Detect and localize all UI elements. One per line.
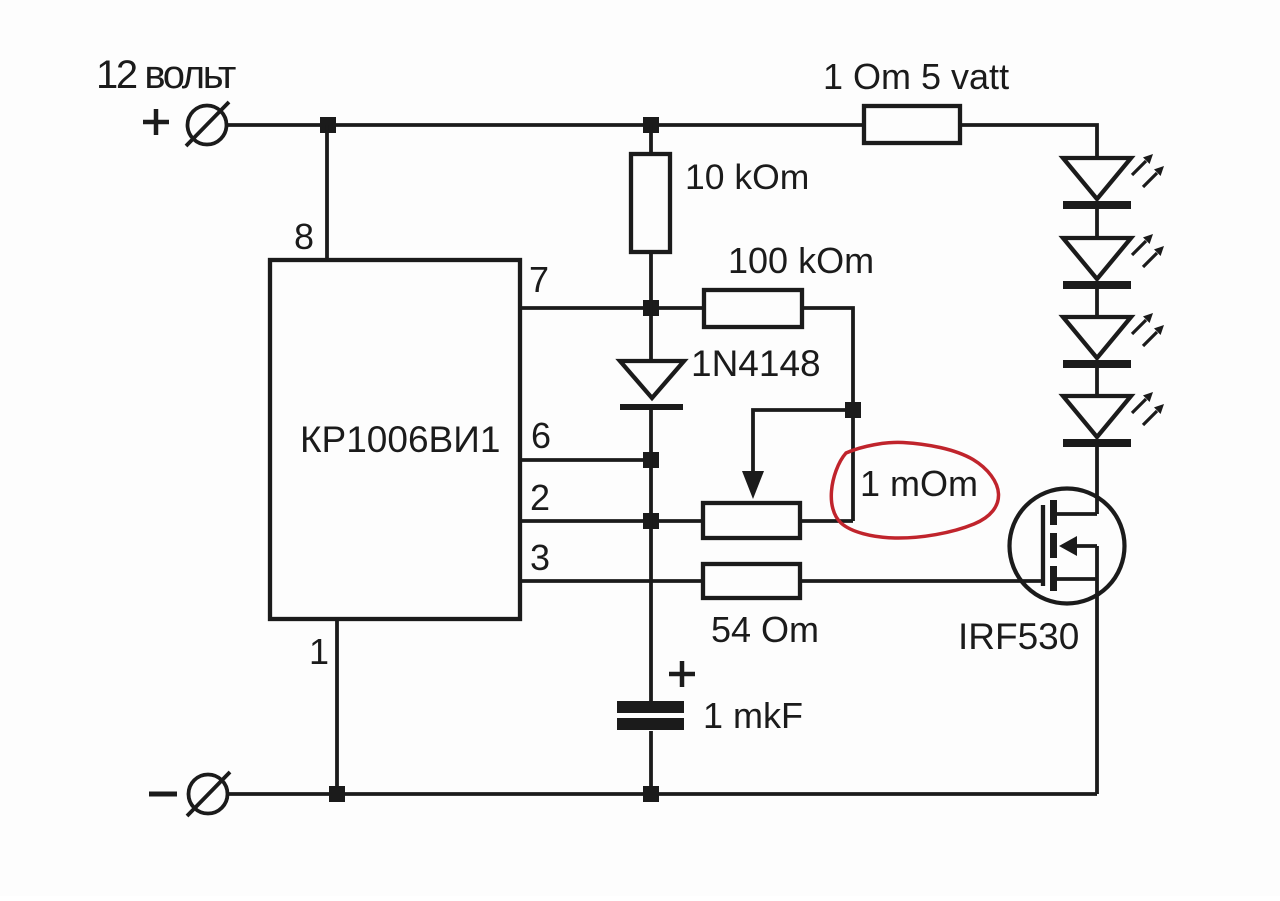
- wire pin 3 (to gate through 54 Om): [520, 579, 703, 583]
- svg-text:54 Om: 54 Om: [711, 609, 819, 650]
- junction top rail / pin 8: [320, 117, 336, 133]
- wire pot right terminal: [800, 519, 853, 523]
- svg-text:100 kOm: 100 kOm: [728, 240, 874, 281]
- wire capacitor to bottom rail: [649, 731, 653, 794]
- resistor 100 kOm: [704, 290, 802, 327]
- resistor 10 kOm: [631, 154, 670, 252]
- wire pin 2: [520, 519, 703, 523]
- wire 54 Om to MOSFET gate: [800, 579, 1043, 583]
- minus sign: [149, 792, 177, 797]
- potentiometer 1 mOm body: [703, 503, 800, 538]
- svg-text:IRF530: IRF530: [958, 616, 1079, 657]
- wire top rail right (R 1 Om to LED chain): [960, 125, 1097, 158]
- wire pot wiper arm: [753, 410, 845, 472]
- wire MOSFET source to bottom rail: [1095, 579, 1099, 794]
- wire pin 1: [335, 619, 339, 794]
- wire pin 8: [325, 125, 329, 260]
- wire LED D5 to MOSFET drain: [1095, 447, 1099, 514]
- junction pin 7 / 10 kOm / diode: [643, 300, 659, 316]
- svg-text:1N4148: 1N4148: [691, 343, 821, 384]
- LED D2 arrows: [1132, 154, 1164, 187]
- transistor Q1 IRF530 MOSFET: [1010, 489, 1125, 604]
- plus sign: [143, 109, 169, 135]
- LED D4 arrows: [1132, 313, 1164, 346]
- wire LED D2 to LED D3: [1095, 209, 1099, 238]
- terminal MINUS (supply negative): [187, 772, 230, 816]
- wire pin 7: [520, 306, 704, 310]
- svg-text:7: 7: [529, 259, 549, 300]
- junction pot wiper tie: [845, 402, 861, 418]
- svg-text:12 вольт: 12 вольт: [96, 53, 236, 97]
- IC U1 КР1006ВИ1 (555 timer) body: [270, 260, 520, 619]
- resistor 54 Om: [703, 564, 800, 598]
- diode D1 1N4148: [620, 361, 684, 407]
- pot wiper arrowhead: [742, 471, 764, 499]
- svg-text:1 mkF: 1 mkF: [703, 695, 803, 736]
- svg-text:10 kOm: 10 kOm: [685, 157, 809, 197]
- svg-text:6: 6: [531, 415, 551, 456]
- wire LED D3 to LED D4: [1095, 289, 1099, 317]
- wire bottom rail: [228, 792, 1097, 796]
- wire 10 kOm to diode anode: [649, 252, 653, 361]
- LED D3: [1063, 238, 1131, 289]
- junction pin 6 / discharge chain: [643, 452, 659, 468]
- wire 10 kOm branch upper stub: [649, 125, 653, 154]
- svg-text:2: 2: [530, 477, 550, 518]
- plus sign capacitor polarity: [669, 661, 695, 687]
- capacitor C1 plates: [617, 701, 684, 730]
- wire LED D4 to LED D5: [1095, 368, 1099, 396]
- resistor 1 Om 5 vatt: [864, 106, 960, 143]
- terminal PLUS (12V supply positive): [186, 102, 229, 146]
- junction pin 2 / chain: [643, 513, 659, 529]
- wire diode cathode to capacitor: [649, 407, 653, 701]
- svg-text:КР1006ВИ1: КР1006ВИ1: [300, 419, 500, 460]
- wire 100 kOm right to pot top terminal: [802, 308, 853, 521]
- LED D4: [1063, 317, 1131, 368]
- svg-text:1 mOm: 1 mOm: [860, 463, 978, 504]
- LED D3 arrows: [1132, 234, 1164, 267]
- red hand-drawn ellipse annotation: [831, 442, 998, 538]
- junction bottom rail / pin 1: [329, 786, 345, 802]
- svg-text:1 Om 5 vatt: 1 Om 5 vatt: [823, 56, 1009, 97]
- junction bottom rail / capacitor: [643, 786, 659, 802]
- LED D5: [1063, 396, 1131, 447]
- svg-text:1: 1: [309, 631, 329, 672]
- svg-text:3: 3: [530, 537, 550, 578]
- junction top rail / 10 kOm branch: [643, 117, 659, 133]
- LED D5 arrows: [1132, 392, 1164, 425]
- svg-text:8: 8: [294, 216, 314, 257]
- wire pin 6: [520, 458, 651, 462]
- wire top rail left (terminal to R 1 Om): [227, 123, 864, 127]
- LED D2: [1063, 158, 1131, 209]
